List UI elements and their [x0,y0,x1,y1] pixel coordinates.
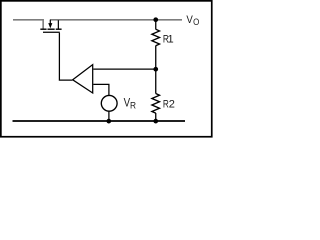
wire: R2 to ground rail [155,113,157,121]
node A junction [153,67,158,72]
node ground junction at R2 [153,119,158,124]
wire: ground rail [13,120,186,122]
wire: Q1 gate to op-amp output [59,33,72,80]
svg-text:R: R [130,100,136,111]
voltage source VR [101,95,117,111]
node VO junction [153,17,158,22]
wire: top rail to VO [50,19,182,21]
label R2 [163,98,175,111]
label VO [186,13,199,27]
wire: VR to ground rail [108,111,110,121]
svg-text:2: 2 [169,98,175,110]
label VR [124,97,137,111]
wire: feedback node A to op-amp input [93,68,155,70]
svg-text:O: O [193,16,199,27]
svg-text:1: 1 [167,34,173,46]
transistor Q1 PMOS pass FET [40,20,61,32]
wire: input feed to Q1 source [13,20,43,29]
resistor R2 [152,94,160,114]
wire: R1 to node A [155,46,157,70]
label R1 [163,34,174,47]
wire: op-amp input to VR [93,84,109,95]
node ground junction at VR [106,119,111,124]
wire: node A to R2 [155,69,157,93]
svg-text:V: V [186,13,192,26]
wire: VO node to R1 [155,20,157,30]
resistor R1 [152,29,160,46]
op-amp U1 [73,65,93,93]
